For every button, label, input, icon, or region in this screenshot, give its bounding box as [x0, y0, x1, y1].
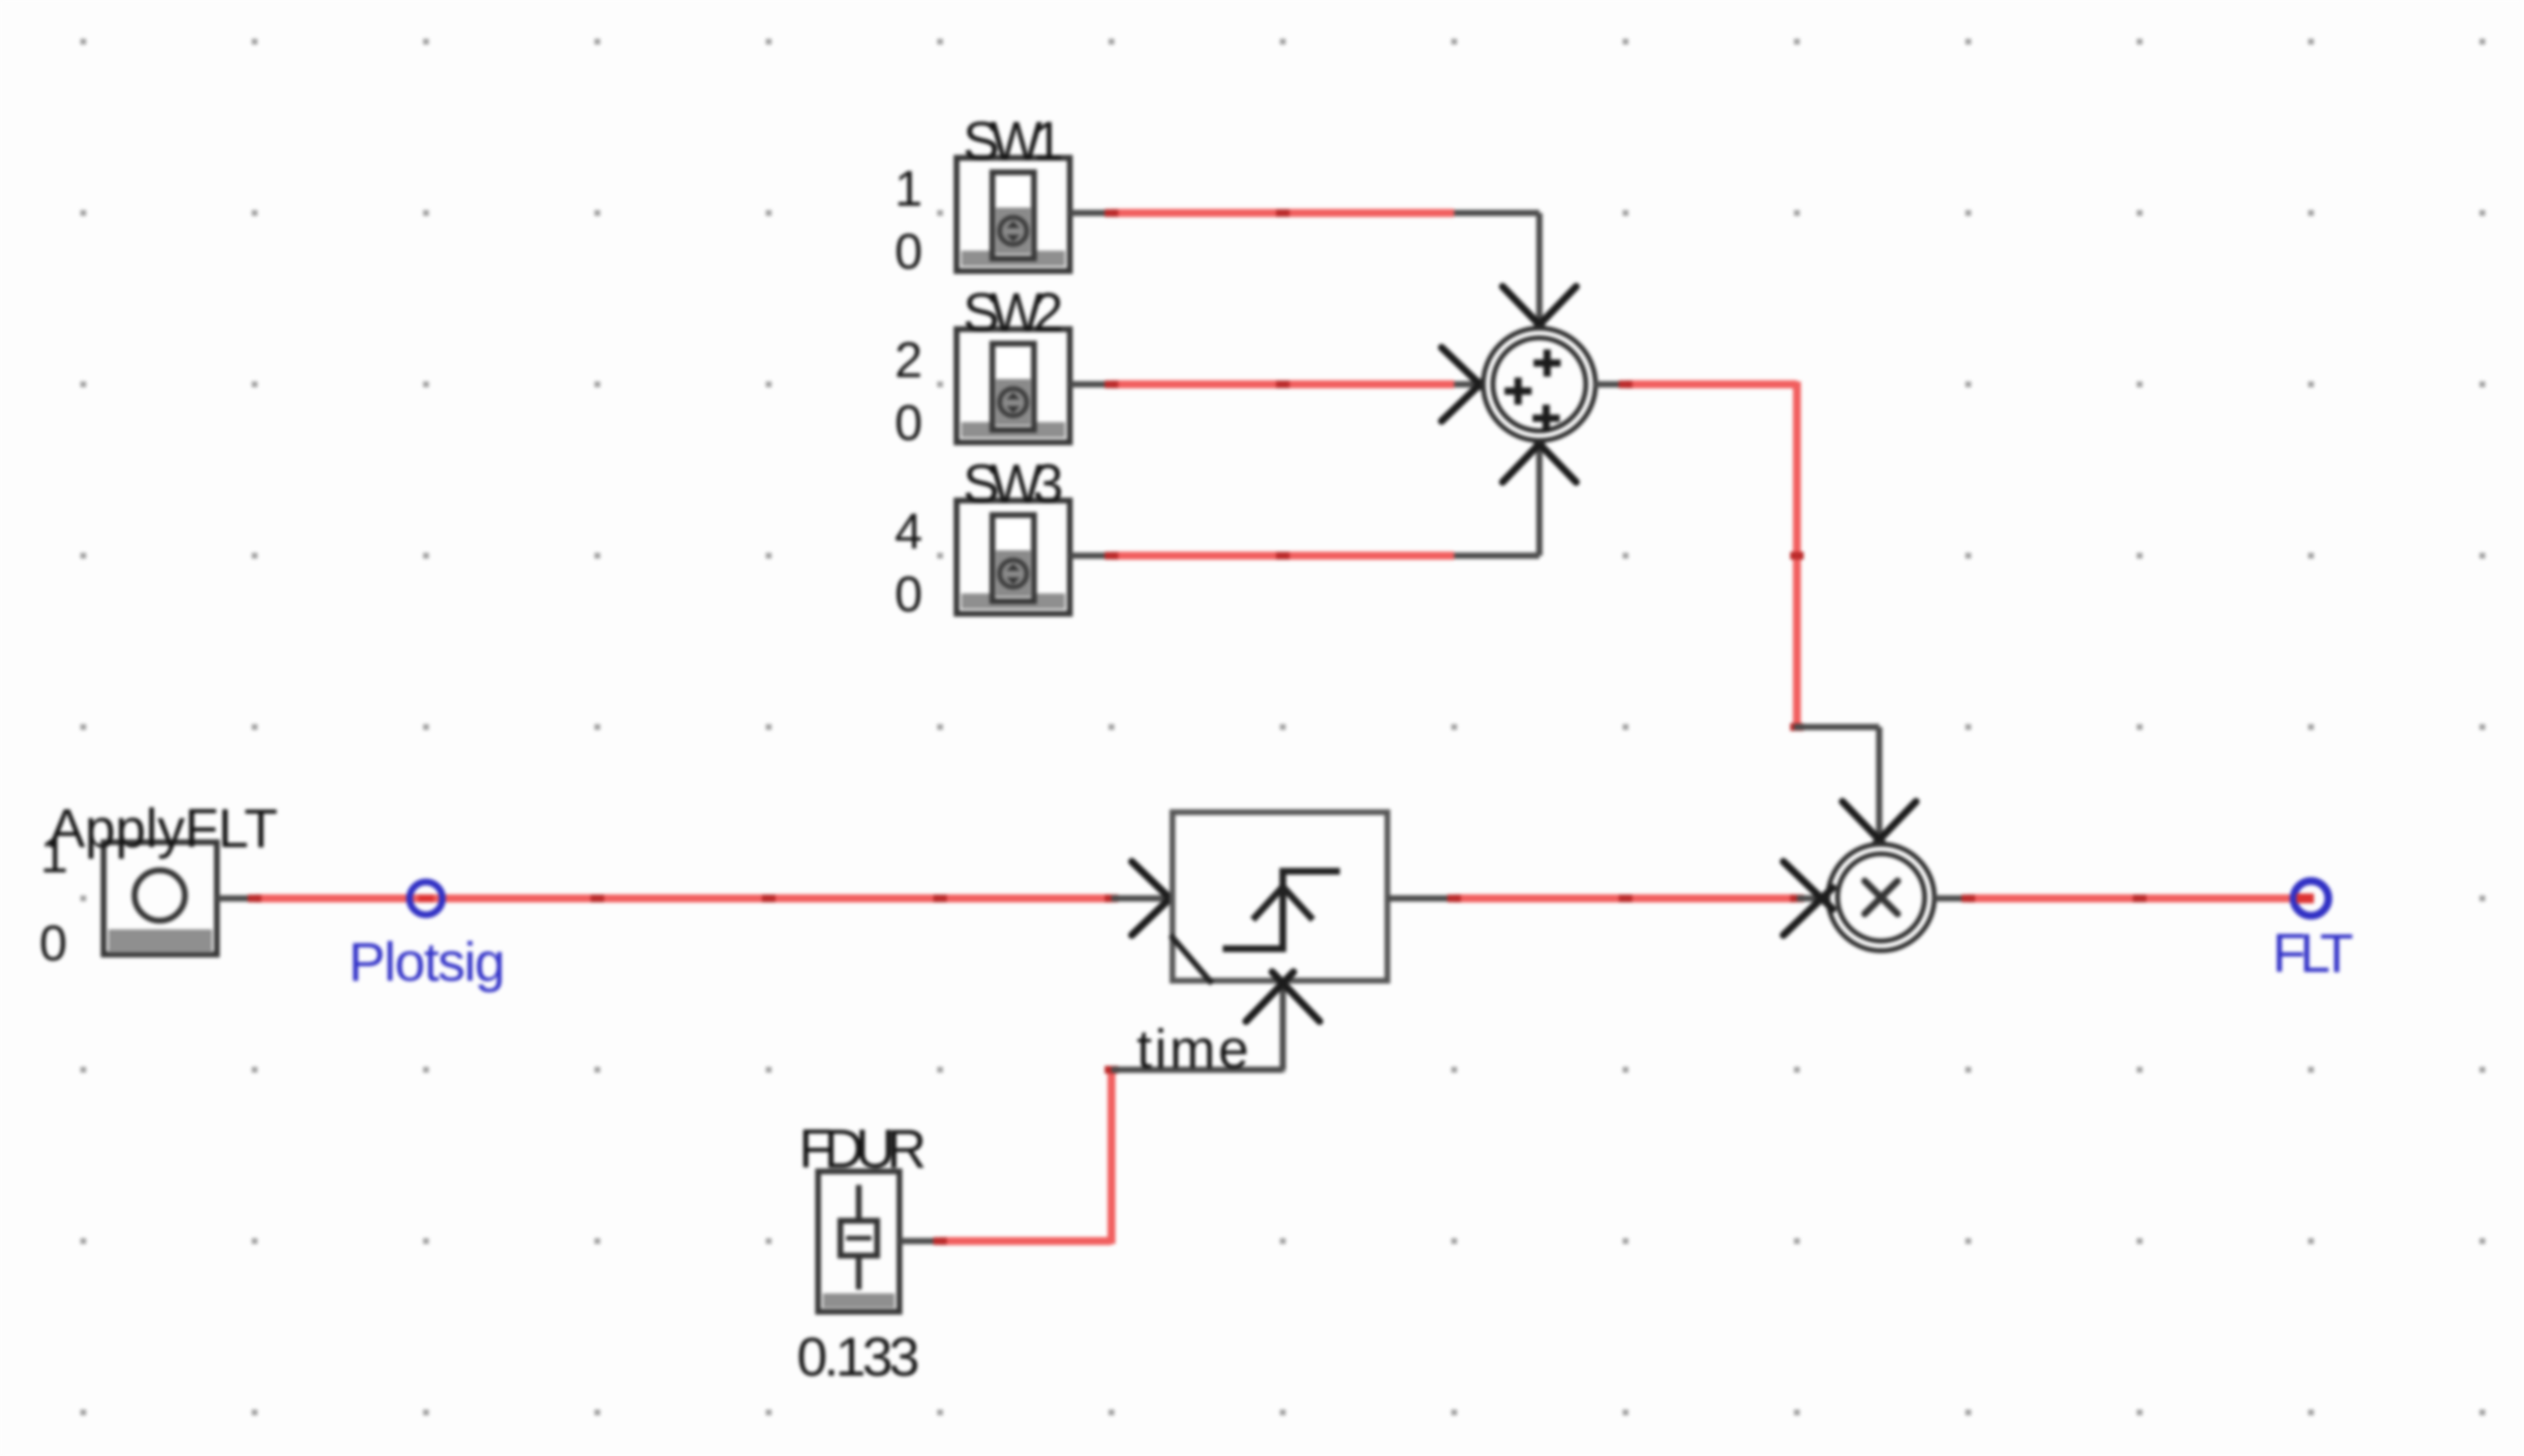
- wire edge-detect output to multiplier left input: [1387, 862, 1833, 935]
- svg-text:0: 0: [895, 225, 923, 281]
- svg-text:FLT: FLT: [2272, 923, 2354, 985]
- wire SW3 output to summing junction bottom input: [1070, 433, 1576, 560]
- svg-text:SW2: SW2: [963, 282, 1064, 344]
- svg-text:0.133: 0.133: [797, 1326, 920, 1388]
- push button ApplyFLT body: [104, 842, 217, 955]
- svg-text:2: 2: [895, 333, 923, 389]
- svg-text:Plotsig: Plotsig: [349, 931, 505, 993]
- switch SW1 body: [957, 158, 1070, 271]
- slider FDUR body: [818, 1171, 899, 1312]
- svg-text:0: 0: [895, 567, 923, 623]
- switch SW2 body: [957, 329, 1070, 442]
- wire ApplyFLT output to edge-detect block input: [217, 862, 1181, 935]
- svg-text:ApplyFLT: ApplyFLT: [48, 798, 278, 860]
- svg-text:SW3: SW3: [963, 453, 1064, 515]
- multiplier block: [1828, 844, 1934, 951]
- wire summing junction output to multiplier top input: [1595, 380, 1916, 851]
- node FLT: [2294, 881, 2328, 916]
- svg-text:1: 1: [895, 162, 923, 218]
- edge-detect (monostable) block body: [1171, 812, 1387, 984]
- wire multiplier output to node FLT: [1934, 895, 2308, 902]
- wire FDUR output to edge-detect block time input: [899, 972, 1320, 1245]
- svg-text:1: 1: [41, 828, 69, 884]
- summing junction (adder): [1483, 328, 1596, 440]
- wire SW1 output to summing junction top input: [1070, 209, 1576, 336]
- svg-text:4: 4: [895, 504, 923, 561]
- node Plotsig: [410, 882, 442, 915]
- switch SW3 body: [957, 500, 1070, 614]
- svg-text:0: 0: [895, 396, 923, 452]
- svg-text:SW1: SW1: [963, 110, 1064, 172]
- wire SW2 output to summing junction left input: [1070, 348, 1491, 421]
- svg-text:0: 0: [40, 916, 68, 972]
- svg-text:FDUR: FDUR: [799, 1118, 927, 1180]
